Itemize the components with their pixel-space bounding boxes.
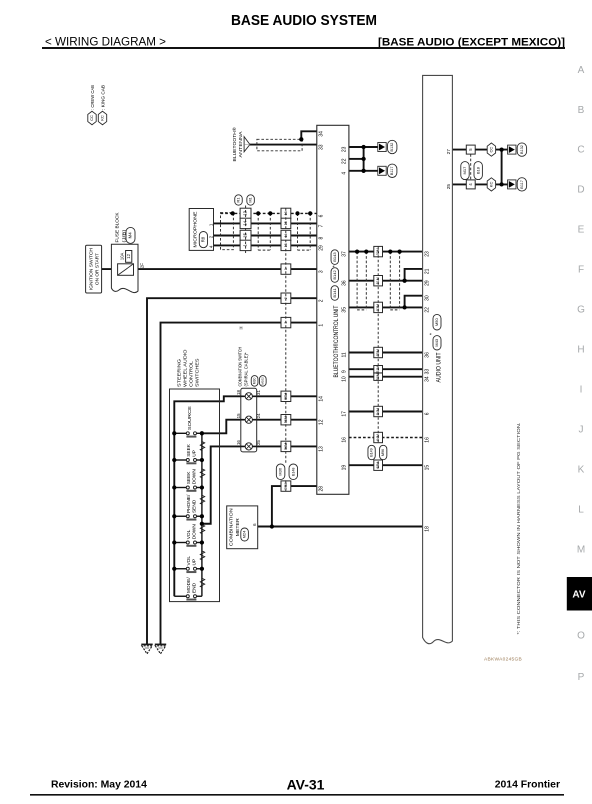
svg-text:(J/B): (J/B) xyxy=(121,229,127,242)
svg-text:M43: M43 xyxy=(434,338,439,347)
svg-text:KC: KC xyxy=(100,115,105,121)
svg-text:6: 6 xyxy=(425,412,431,415)
svg-text:B117: B117 xyxy=(390,167,394,176)
svg-text:BLUETOOTH®: BLUETOOTH® xyxy=(231,127,238,161)
svg-text:50M: 50M xyxy=(376,373,380,380)
svg-text:33: 33 xyxy=(425,369,431,375)
svg-text:K: K xyxy=(578,465,585,476)
svg-text:M36: M36 xyxy=(278,467,283,476)
svg-text:B141: B141 xyxy=(332,288,337,298)
svg-text:14: 14 xyxy=(319,396,325,402)
svg-text:3: 3 xyxy=(284,322,288,324)
svg-text:9: 9 xyxy=(342,370,348,373)
svg-text:COMBINATION: COMBINATION xyxy=(229,508,235,547)
svg-text:21: 21 xyxy=(425,268,431,274)
svg-text:10: 10 xyxy=(342,376,348,382)
svg-text:15: 15 xyxy=(236,413,241,418)
svg-text:DOWN: DOWN xyxy=(192,469,198,485)
svg-text:64M: 64M xyxy=(376,434,380,441)
svg-text:13: 13 xyxy=(319,446,325,452)
svg-text:AV-31: AV-31 xyxy=(287,776,325,792)
svg-text:G: G xyxy=(577,304,585,315)
svg-text:19: 19 xyxy=(342,465,348,471)
svg-text:CC: CC xyxy=(89,115,94,121)
svg-text:10A: 10A xyxy=(119,252,124,260)
svg-text:PHONE/: PHONE/ xyxy=(186,494,192,513)
svg-text:[BASE AUDIO (EXCEPT MEXICO)]: [BASE AUDIO (EXCEPT MEXICO)] xyxy=(378,36,565,48)
svg-text:2: 2 xyxy=(319,299,325,302)
svg-text:B148: B148 xyxy=(291,468,295,476)
svg-text:51M: 51M xyxy=(376,277,380,284)
svg-text:2F: 2F xyxy=(140,263,145,269)
svg-text:AUDIO UNIT: AUDIO UNIT xyxy=(436,352,442,382)
svg-text:B143: B143 xyxy=(332,252,337,262)
svg-text:M24: M24 xyxy=(242,530,247,539)
svg-text:END: END xyxy=(192,582,198,593)
svg-text:CC: CC xyxy=(488,147,493,153)
svg-text:ABKWA0245GB: ABKWA0245GB xyxy=(484,657,522,663)
svg-text:16: 16 xyxy=(425,437,431,443)
svg-text:8: 8 xyxy=(319,236,325,239)
svg-text:14: 14 xyxy=(243,220,248,225)
svg-text:B: B xyxy=(578,105,585,116)
svg-text:29: 29 xyxy=(319,245,325,251)
svg-text:(SPIRAL CABLE)*: (SPIRAL CABLE)* xyxy=(243,352,249,386)
svg-text:25: 25 xyxy=(256,440,261,445)
svg-text:56M: 56M xyxy=(284,443,288,450)
svg-text:R8: R8 xyxy=(201,236,206,242)
svg-text:15: 15 xyxy=(243,233,248,238)
svg-text:FUSE BLOCK: FUSE BLOCK xyxy=(114,212,120,243)
svg-text:B132: B132 xyxy=(390,143,394,152)
svg-text:16: 16 xyxy=(236,440,241,445)
svg-text:D: D xyxy=(577,185,584,196)
svg-text:23: 23 xyxy=(425,251,431,257)
svg-text:M50: M50 xyxy=(434,318,439,327)
svg-text:30: 30 xyxy=(425,295,431,301)
svg-text:54M: 54M xyxy=(376,408,380,415)
svg-text:6: 6 xyxy=(319,214,325,217)
svg-text:B18: B18 xyxy=(475,166,480,174)
svg-text:I: I xyxy=(580,385,583,396)
svg-text:O: O xyxy=(577,631,585,642)
svg-text:31: 31 xyxy=(256,390,261,395)
svg-text:M1: M1 xyxy=(248,196,253,202)
svg-text:STEERING: STEERING xyxy=(177,359,183,387)
svg-text:E: E xyxy=(578,225,585,236)
svg-text:: CREW CAB: : CREW CAB xyxy=(90,85,96,110)
svg-text:1: 1 xyxy=(319,324,325,327)
svg-text:B142: B142 xyxy=(332,270,337,280)
svg-text:24: 24 xyxy=(256,413,261,418)
svg-text:M102: M102 xyxy=(261,377,265,385)
svg-text:M: M xyxy=(577,545,585,556)
svg-text:22: 22 xyxy=(425,307,431,313)
svg-text:12: 12 xyxy=(126,253,131,258)
svg-text:34: 34 xyxy=(319,131,325,137)
svg-text:L: L xyxy=(578,505,584,516)
svg-text:51M: 51M xyxy=(376,366,380,373)
svg-text:B149: B149 xyxy=(370,448,374,456)
svg-text:H: H xyxy=(240,326,243,331)
svg-text:ANTENNA: ANTENNA xyxy=(238,131,244,158)
svg-text:34: 34 xyxy=(425,376,431,382)
svg-text:55M: 55M xyxy=(376,349,380,356)
svg-text:SOURCE: SOURCE xyxy=(187,406,193,430)
svg-text:M4: M4 xyxy=(128,232,133,239)
svg-text:11: 11 xyxy=(342,352,348,357)
svg-text:18: 18 xyxy=(236,390,241,395)
svg-text:SEEK: SEEK xyxy=(186,471,192,485)
svg-text:BASE AUDIO SYSTEM: BASE AUDIO SYSTEM xyxy=(231,13,377,29)
svg-text:55M: 55M xyxy=(284,393,288,400)
svg-text:DOWN: DOWN xyxy=(192,524,198,540)
svg-text:VOL: VOL xyxy=(186,556,192,566)
svg-text:16: 16 xyxy=(284,211,288,215)
svg-text:52M: 52M xyxy=(376,248,380,255)
svg-text:UP: UP xyxy=(192,559,198,566)
svg-text:36: 36 xyxy=(342,280,348,286)
svg-text:28: 28 xyxy=(319,486,325,492)
svg-text:27: 27 xyxy=(446,149,451,155)
svg-text:3: 3 xyxy=(319,270,325,273)
svg-text:WHEEL AUDIO: WHEEL AUDIO xyxy=(183,349,189,387)
svg-text:36: 36 xyxy=(425,352,431,358)
svg-text:BLUETOOTH®CONTROL UNIT: BLUETOOTH®CONTROL UNIT xyxy=(333,305,340,377)
svg-text:: KING CAB: : KING CAB xyxy=(100,85,106,110)
svg-text:VOL: VOL xyxy=(186,529,192,539)
svg-text:25: 25 xyxy=(446,184,451,190)
svg-text:H: H xyxy=(577,345,584,356)
svg-text:7: 7 xyxy=(319,224,325,227)
svg-text:2: 2 xyxy=(284,297,288,299)
svg-text:53M: 53M xyxy=(376,304,380,311)
svg-text:F: F xyxy=(578,264,584,275)
svg-text:4: 4 xyxy=(342,172,348,175)
svg-text:KC: KC xyxy=(488,182,493,188)
svg-text:SEND: SEND xyxy=(192,499,198,513)
svg-text:29: 29 xyxy=(425,280,431,286)
svg-text:58M: 58M xyxy=(284,416,288,423)
svg-text:Revision: May 2014: Revision: May 2014 xyxy=(51,780,147,791)
svg-text:12: 12 xyxy=(319,419,325,425)
svg-text:33: 33 xyxy=(319,144,325,150)
svg-text:< WIRING DIAGRAM >: < WIRING DIAGRAM > xyxy=(45,36,166,48)
svg-text:23: 23 xyxy=(342,146,348,152)
svg-text:P: P xyxy=(578,672,585,683)
svg-text:M17: M17 xyxy=(462,166,467,175)
svg-text:17: 17 xyxy=(342,411,348,417)
svg-text:A: A xyxy=(578,65,585,76)
svg-text:M30: M30 xyxy=(252,377,256,384)
svg-text:CONTROL: CONTROL xyxy=(189,361,195,387)
svg-text:J: J xyxy=(579,425,584,436)
svg-text:IGNITION SWITCH: IGNITION SWITCH xyxy=(88,248,94,291)
svg-text:MICROPHONE: MICROPHONE xyxy=(193,212,199,248)
svg-text:ON OR START: ON OR START xyxy=(95,253,101,285)
svg-text:15: 15 xyxy=(425,465,431,471)
svg-text:2014 Frontier: 2014 Frontier xyxy=(495,780,560,791)
svg-text:57M: 57M xyxy=(284,483,288,490)
svg-text:18: 18 xyxy=(425,526,431,532)
svg-text:UP: UP xyxy=(192,450,198,457)
svg-text:13: 13 xyxy=(284,243,288,247)
svg-text:R1: R1 xyxy=(236,197,241,203)
svg-text:16: 16 xyxy=(342,437,348,443)
svg-text:C: C xyxy=(577,145,584,156)
svg-text:37: 37 xyxy=(342,251,348,257)
svg-text:14: 14 xyxy=(284,234,288,238)
svg-text:63M: 63M xyxy=(376,462,380,469)
svg-text:MODE/: MODE/ xyxy=(186,577,192,593)
svg-text:B117: B117 xyxy=(520,180,524,189)
svg-text:SEEK: SEEK xyxy=(186,443,192,457)
svg-text:13: 13 xyxy=(243,210,248,215)
svg-text:35: 35 xyxy=(342,307,348,313)
svg-text:M96: M96 xyxy=(381,449,385,456)
svg-text:AV: AV xyxy=(572,590,585,601)
svg-text:METER: METER xyxy=(235,518,241,537)
svg-text:*: THIS CONNECTOR IS NOT SHOWN: *: THIS CONNECTOR IS NOT SHOWN IN HARNES… xyxy=(516,423,522,635)
svg-text:B132: B132 xyxy=(520,145,524,154)
svg-text:1: 1 xyxy=(284,268,288,270)
svg-text:COMBINATION SWITCH: COMBINATION SWITCH xyxy=(237,347,243,387)
svg-text:SWITCHES: SWITCHES xyxy=(195,359,201,388)
svg-text:22: 22 xyxy=(342,158,348,164)
svg-text:15: 15 xyxy=(284,221,288,225)
